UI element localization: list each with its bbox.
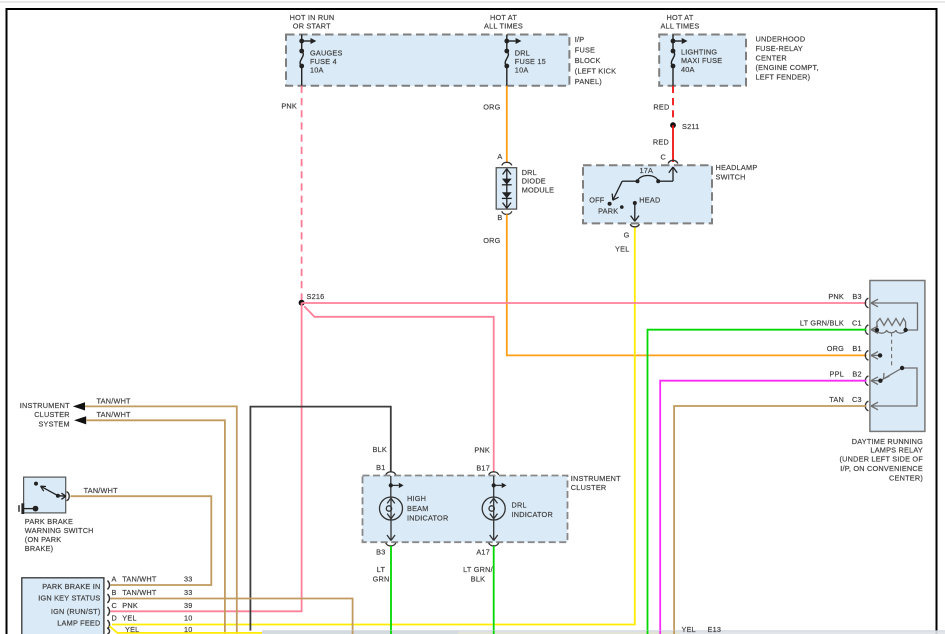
- connector arc C: [668, 160, 678, 163]
- svg-text:B3: B3: [376, 548, 385, 557]
- relay connector pin B1: [865, 351, 868, 361]
- svg-text:ALL TIMES: ALL TIMES: [484, 22, 523, 31]
- connector arc B: [502, 211, 512, 214]
- svg-text:INDICATOR: INDICATOR: [512, 510, 553, 519]
- svg-text:(ENGINE COMPT,: (ENGINE COMPT,: [756, 63, 819, 72]
- svg-text:DRL: DRL: [512, 500, 527, 509]
- svg-text:SYSTEM: SYSTEM: [38, 419, 69, 428]
- svg-text:B17: B17: [476, 464, 490, 473]
- arrow 2: [74, 416, 86, 424]
- svg-text:INSTRUMENT: INSTRUMENT: [571, 474, 621, 483]
- svg-text:C: C: [661, 153, 667, 162]
- relay pin C1 internal lead: [871, 326, 878, 334]
- I/P fuse block box: [286, 35, 569, 86]
- DRL diode module U1: [496, 168, 516, 209]
- svg-text:YEL: YEL: [682, 625, 696, 634]
- svg-text:BRAKE): BRAKE): [25, 544, 54, 553]
- wire ORG from module B down then right to relay B1: [507, 214, 867, 355]
- node S211: [670, 122, 676, 128]
- switch internals: [612, 167, 677, 200]
- relay connector pin B2: [865, 376, 868, 386]
- svg-text:TAN: TAN: [829, 395, 844, 404]
- svg-text:MODULE: MODULE: [522, 185, 555, 194]
- svg-text:(UNDER LEFT SIDE OF: (UNDER LEFT SIDE OF: [839, 455, 923, 464]
- svg-text:LT GRN/: LT GRN/: [463, 565, 493, 574]
- underhood fuse-relay center box: [659, 35, 746, 86]
- instrument cluster box: [363, 476, 568, 543]
- svg-text:39: 39: [184, 601, 193, 610]
- svg-text:BLOCK: BLOCK: [575, 56, 601, 65]
- wire RED dashed from maxi fuse to S211: [672, 86, 674, 123]
- row E wire YEL: [110, 626, 681, 633]
- svg-text:BLK: BLK: [471, 574, 485, 583]
- svg-text:10A: 10A: [310, 66, 324, 75]
- wire YEL from G down to row D and left to connector: [112, 228, 635, 625]
- svg-text:YEL: YEL: [615, 245, 629, 254]
- svg-text:RED: RED: [653, 138, 669, 147]
- svg-text:ORG: ORG: [827, 344, 844, 353]
- svg-text:DIODE: DIODE: [522, 177, 546, 186]
- relay coil: [877, 330, 906, 333]
- lamp DRL INDICATOR: [482, 476, 505, 541]
- svg-text:LT: LT: [377, 565, 386, 574]
- svg-text:HIGH: HIGH: [407, 494, 426, 503]
- svg-text:DRL: DRL: [522, 168, 537, 177]
- relay pin B2 internal lead: [871, 377, 880, 385]
- relay connector pin C3: [865, 401, 868, 411]
- svg-text:40A: 40A: [681, 65, 695, 74]
- svg-text:ORG: ORG: [483, 103, 500, 112]
- svg-text:YEL: YEL: [122, 614, 136, 623]
- svg-text:FUSE-RELAY: FUSE-RELAY: [756, 44, 803, 53]
- svg-text:A: A: [112, 575, 117, 584]
- relay B2 contact: [878, 379, 882, 383]
- svg-text:(LEFT KICK: (LEFT KICK: [575, 67, 616, 76]
- svg-text:ALL TIMES: ALL TIMES: [661, 22, 700, 31]
- svg-text:LAMPS RELAY: LAMPS RELAY: [870, 445, 923, 454]
- connector arc at park switch output: [58, 495, 66, 498]
- wire PNK S216 to relay B3: [302, 302, 867, 304]
- svg-text:PANEL): PANEL): [575, 77, 602, 86]
- wire TAN relay C3 to left and down: [674, 406, 866, 634]
- fuse DRL FUSE 15 10A: [505, 35, 515, 86]
- svg-text:C1: C1: [852, 319, 862, 328]
- relay pin B3 internal lead: [871, 299, 918, 330]
- svg-text:CENTER: CENTER: [756, 54, 787, 63]
- svg-text:B3: B3: [852, 292, 861, 301]
- svg-text:HEADLAMP: HEADLAMP: [716, 163, 758, 172]
- wire PNK S216 branch to cluster B17: [304, 306, 494, 472]
- svg-text:I/P, ON CONVENIENCE: I/P, ON CONVENIENCE: [840, 464, 923, 473]
- svg-text:TAN/WHT: TAN/WHT: [97, 410, 132, 419]
- svg-text:YEL: YEL: [125, 625, 139, 634]
- svg-text:BEAM: BEAM: [407, 504, 429, 513]
- svg-text:INSTRUMENT: INSTRUMENT: [20, 401, 70, 410]
- svg-text:PARK BRAKE IN: PARK BRAKE IN: [42, 582, 100, 591]
- svg-text:PNK: PNK: [474, 445, 490, 454]
- fuse GAUGES FUSE 4 10A: [300, 35, 310, 86]
- svg-text:ORG: ORG: [483, 236, 500, 245]
- relay connector pin B3: [865, 298, 868, 308]
- wire TAN/WHT from park switch right, down, to row A: [71, 496, 212, 585]
- wire TAN/WHT arrow1 right then down: [85, 406, 237, 634]
- connector arc G: [630, 224, 639, 227]
- relay pin B1 internal lead: [871, 352, 880, 360]
- svg-text:IGN KEY STATUS: IGN KEY STATUS: [38, 593, 100, 602]
- HEAD contact wire with down arrow: [631, 203, 639, 221]
- svg-text:B: B: [497, 213, 502, 222]
- svg-text:PNK: PNK: [122, 601, 138, 610]
- wire ORG from DRL fuse to diode module: [506, 86, 508, 163]
- arrow 1: [73, 402, 85, 410]
- lamp HIGH BEAM INDICATOR: [380, 476, 403, 541]
- svg-text:E13: E13: [708, 625, 722, 634]
- svg-text:C: C: [112, 601, 118, 610]
- svg-text:WARNING SWITCH: WARNING SWITCH: [25, 526, 94, 535]
- svg-text:SWITCH: SWITCH: [716, 173, 746, 182]
- svg-text:C3: C3: [852, 395, 862, 404]
- svg-text:PNK: PNK: [281, 102, 297, 111]
- svg-text:PARK: PARK: [598, 207, 618, 216]
- connector arcs on top: [386, 472, 396, 475]
- ground at park brake switch: [33, 506, 39, 512]
- svg-text:A: A: [497, 152, 502, 161]
- svg-text:A17: A17: [476, 548, 490, 557]
- svg-text:TAN/WHT: TAN/WHT: [122, 588, 157, 597]
- wire LT GRN/BLK relay C1 to left and down: [648, 330, 867, 634]
- svg-text:B: B: [112, 588, 117, 597]
- relay resistor (parallel with coil): [877, 319, 906, 331]
- svg-text:TAN/WHT: TAN/WHT: [97, 396, 132, 405]
- svg-text:CENTER): CENTER): [889, 474, 923, 483]
- svg-text:S216: S216: [307, 292, 325, 301]
- svg-text:OFF: OFF: [589, 196, 605, 205]
- svg-text:LEFT FENDER): LEFT FENDER): [756, 73, 811, 82]
- svg-text:(ON PARK: (ON PARK: [25, 535, 62, 544]
- node S216: [299, 300, 305, 306]
- wire PPL relay B2 to left and down: [660, 381, 866, 634]
- svg-text:G: G: [624, 231, 630, 240]
- svg-text:B2: B2: [852, 370, 861, 379]
- row B wire TAN/WHT to x355 down: [111, 599, 353, 634]
- svg-text:10: 10: [184, 614, 193, 623]
- svg-text:TAN/WHT: TAN/WHT: [122, 575, 157, 584]
- svg-text:S211: S211: [682, 122, 699, 131]
- svg-text:GRN: GRN: [373, 574, 390, 583]
- svg-text:BLK: BLK: [373, 445, 387, 454]
- svg-text:33: 33: [184, 575, 193, 584]
- headlamp switch box: [583, 165, 712, 223]
- wire RED solid from S211 to headlamp switch: [672, 125, 674, 162]
- svg-text:PPL: PPL: [830, 370, 844, 379]
- relay B1 contact: [878, 353, 882, 357]
- wire TAN/WHT arrow2 right then down: [86, 420, 225, 634]
- relay coil right junction: [903, 328, 907, 332]
- svg-text:HEAD: HEAD: [639, 195, 660, 204]
- relay connector pin C1: [865, 325, 868, 335]
- svg-text:LT GRN/BLK: LT GRN/BLK: [800, 319, 844, 328]
- wire PNK dashed from gauges fuse to S216: [301, 86, 303, 300]
- svg-text:INDICATOR: INDICATOR: [407, 514, 448, 523]
- connector arcs rows A-E: [108, 581, 110, 590]
- svg-text:10A: 10A: [515, 65, 529, 74]
- relay actuation dashed link: [891, 333, 893, 368]
- wire LT GRN/BLK from A17 down: [493, 546, 495, 634]
- svg-text:10: 10: [184, 625, 193, 634]
- wire PNK S216 down to connector row C: [111, 303, 302, 612]
- svg-text:D: D: [112, 614, 118, 623]
- fuse LIGHTING MAXI FUSE 40A: [671, 35, 681, 86]
- svg-text:CLUSTER: CLUSTER: [34, 410, 70, 419]
- svg-text:I/P: I/P: [575, 35, 585, 44]
- connector arcs on bottom of cluster: [386, 543, 396, 546]
- svg-text:OR START: OR START: [293, 22, 331, 31]
- svg-text:B1: B1: [376, 463, 385, 472]
- svg-text:B1: B1: [852, 344, 861, 353]
- svg-text:UNDERHOOD: UNDERHOOD: [756, 35, 806, 44]
- svg-text:RED: RED: [653, 103, 669, 112]
- relay pin C3 internal lead: [871, 368, 917, 410]
- svg-text:TAN/WHT: TAN/WHT: [84, 486, 119, 495]
- svg-text:IGN (RUN/ST): IGN (RUN/ST): [51, 607, 101, 616]
- svg-text:CLUSTER: CLUSTER: [571, 483, 607, 492]
- relay switch pivot: [900, 366, 904, 370]
- relay coil left junction: [875, 328, 879, 332]
- relay switch arm: [882, 368, 902, 380]
- connector arc A: [502, 162, 512, 165]
- svg-text:FUSE: FUSE: [575, 46, 595, 55]
- svg-text:LAMP FEED: LAMP FEED: [57, 619, 100, 628]
- svg-text:33: 33: [184, 588, 193, 597]
- bottom scrollbar strip: [262, 631, 945, 634]
- wire LT GRN from B3 down: [390, 546, 392, 634]
- svg-text:PARK BRAKE: PARK BRAKE: [25, 517, 73, 526]
- svg-text:PNK: PNK: [828, 292, 844, 301]
- svg-text:17A: 17A: [639, 166, 653, 175]
